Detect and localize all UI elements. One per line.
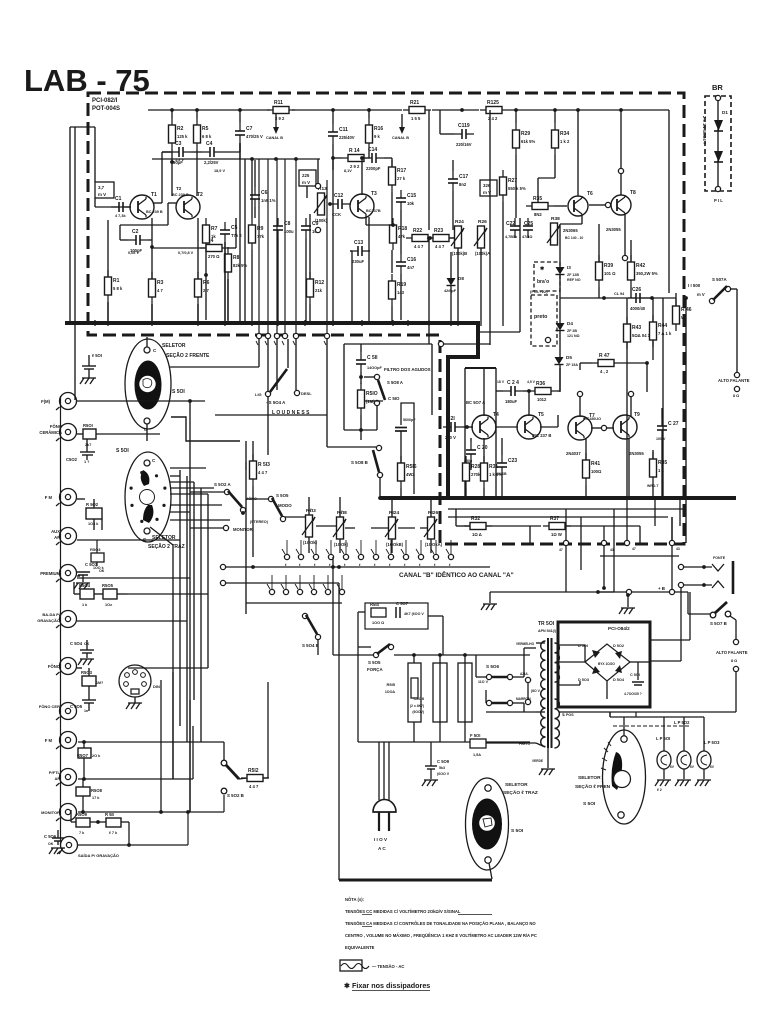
wire selector A bottom stub xyxy=(146,424,148,441)
svg-text:GRAVAÇÃO: GRAVAÇÃO xyxy=(37,618,60,623)
svg-text:4.7OO/35 ?: 4.7OO/35 ? xyxy=(624,692,642,696)
svg-text:(6OO V: (6OO V xyxy=(437,772,450,776)
svg-text:BC 237 B: BC 237 B xyxy=(533,433,551,438)
svg-text:T6: T6 xyxy=(587,191,593,197)
svg-text:400/6B: 400/6B xyxy=(495,472,507,476)
transformer TR501 secondary top xyxy=(555,643,560,653)
connector FONTE bracket xyxy=(732,561,735,594)
svg-text:220/16V: 220/16V xyxy=(456,142,472,147)
wire LP502 xyxy=(683,717,685,751)
svg-text:C3: C3 xyxy=(175,141,182,147)
wire band verticals xyxy=(639,526,641,543)
svg-text:C 5O3: C 5O3 xyxy=(85,562,98,567)
wire R4 right xyxy=(228,247,236,249)
wire R516 bottom xyxy=(400,488,402,497)
svg-text:R 5I3: R 5I3 xyxy=(258,462,270,468)
svg-text:POT-004S: POT-004S xyxy=(92,106,120,112)
svg-text:27 k: 27 k xyxy=(397,176,406,181)
svg-text:DESL: DESL xyxy=(301,391,312,396)
resistor R509 xyxy=(76,818,90,827)
wire R27 down xyxy=(502,202,504,320)
jack FONO CERAMICA xyxy=(60,424,77,441)
wire T1 T2 base coupling xyxy=(153,202,162,204)
wire C7 down xyxy=(239,143,241,160)
svg-text:I3: I3 xyxy=(567,265,571,270)
capacitor C26 xyxy=(635,293,637,303)
wire power bottom rail xyxy=(358,741,530,743)
wire loudness verticals xyxy=(258,339,260,367)
svg-text:C8O8: C8O8 xyxy=(414,696,425,701)
wire C2 loop xyxy=(120,239,128,241)
svg-text:4n7: 4n7 xyxy=(407,265,415,270)
svg-text:CERÂMICA: CERÂMICA xyxy=(39,430,62,435)
svg-text:14OOpF: 14OOpF xyxy=(367,366,382,370)
wire T3 collector up xyxy=(361,158,363,195)
wire C6 vert xyxy=(254,160,256,187)
terminal MONITOR mid xyxy=(223,525,228,530)
svg-text:T5: T5 xyxy=(538,412,544,418)
svg-text:(100k)A: (100k)A xyxy=(475,251,490,256)
wire marrom xyxy=(485,690,487,703)
svg-text:R 5II: R 5II xyxy=(105,812,114,817)
jack FM 2 xyxy=(60,732,77,749)
svg-text:S 5O6: S 5O6 xyxy=(486,664,499,669)
svg-text:R5IO: R5IO xyxy=(366,391,378,397)
ground DIN xyxy=(134,697,136,703)
svg-text:R5O8: R5O8 xyxy=(91,788,103,793)
svg-text:225/40V: 225/40V xyxy=(339,135,355,140)
resistor R507 xyxy=(78,748,91,758)
svg-text:5600pF: 5600pF xyxy=(403,418,416,422)
resistor R125 xyxy=(486,107,502,114)
svg-text:ℓ 2: ℓ 2 xyxy=(657,788,662,792)
wire left drop 3 xyxy=(172,672,174,779)
switch S502B blade xyxy=(226,765,239,779)
svg-text:S 5OI: S 5OI xyxy=(116,448,129,454)
wire T9 emitter xyxy=(628,438,630,497)
resistor R516 xyxy=(398,463,405,481)
wire bundle vertical 2 xyxy=(172,545,174,779)
resistor R39 xyxy=(596,262,603,280)
wire rail stub R29 xyxy=(515,110,517,123)
wire C3 link xyxy=(162,151,171,153)
wire S502B up xyxy=(223,742,225,760)
svg-text:S 5O8 A: S 5O8 A xyxy=(387,380,403,385)
wire R507 leads xyxy=(83,742,85,748)
diode D8 xyxy=(447,278,456,286)
svg-text:C 5O7: C 5O7 xyxy=(396,601,409,606)
svg-text:MONITOR: MONITOR xyxy=(233,527,253,532)
svg-text:C119: C119 xyxy=(458,123,470,129)
terminal BR top xyxy=(715,95,720,100)
jack FONO CER xyxy=(60,703,77,720)
svg-text:(6OOV): (6OOV) xyxy=(412,710,424,714)
transformer TR501 core xyxy=(547,638,549,748)
terminal selector D bottom xyxy=(618,812,624,818)
svg-text:C26: C26 xyxy=(632,287,641,293)
node bus junction xyxy=(439,496,443,500)
wire x663 vert xyxy=(662,298,664,497)
wire selector D top feed xyxy=(623,717,625,736)
capacitor C1 xyxy=(118,202,120,212)
svg-text:(1OOkA): (1OOkA) xyxy=(425,542,443,547)
terminal BR bottom xyxy=(715,186,720,191)
svg-text:T8: T8 xyxy=(630,190,636,196)
svg-text:​1 k: ​1 k xyxy=(658,468,664,473)
svg-text:61k 5%: 61k 5% xyxy=(521,139,535,144)
wire T4 collector up xyxy=(483,368,485,416)
wire stage3 bottoms xyxy=(391,250,393,273)
svg-text:100 V: 100 V xyxy=(656,437,666,441)
capacitor C20 xyxy=(466,449,476,451)
diode D2 in BR xyxy=(714,151,723,162)
svg-text:1Ω Δ: 1Ω Δ xyxy=(472,532,482,537)
potentiometer R26 xyxy=(478,226,485,248)
terminal y567 xyxy=(220,564,225,569)
svg-text:SAÍDA P/ GRAVAÇÃO: SAÍDA P/ GRAVAÇÃO xyxy=(78,853,119,858)
switch S504B xyxy=(302,613,307,618)
wire row2 bus xyxy=(246,602,342,604)
resistor R11 xyxy=(273,107,289,114)
wire long vert x465 xyxy=(464,368,466,497)
switch S504A xyxy=(265,391,270,396)
svg-text:BC480-IO: BC480-IO xyxy=(584,417,601,421)
selector B contact dots xyxy=(162,504,165,507)
svg-text:ZF 12B: ZF 12B xyxy=(567,273,579,277)
resistor R36 xyxy=(535,388,551,395)
svg-text:C4: C4 xyxy=(206,141,213,147)
svg-text:R34: R34 xyxy=(560,131,569,137)
ground right mid xyxy=(619,608,623,614)
capacitor C6 xyxy=(250,194,260,196)
svg-text:T4: T4 xyxy=(493,412,499,418)
svg-text:4,9 V: 4,9 V xyxy=(527,380,536,384)
diode D502 xyxy=(615,651,622,659)
svg-text:PREMIUM: PREMIUM xyxy=(40,571,60,576)
switch S507B xyxy=(710,612,716,618)
wire primary taps xyxy=(536,642,545,644)
resistor R44 xyxy=(650,322,657,340)
svg-text:FÔNO CER: FÔNO CER xyxy=(39,704,60,709)
svg-text:S 5O5: S 5O5 xyxy=(368,660,381,665)
wire ground spur xyxy=(627,595,629,607)
wire fuse xyxy=(486,742,536,744)
svg-text:R11: R11 xyxy=(274,100,283,106)
wire rail stub R16 xyxy=(368,110,370,118)
wire rect box to lamp rail xyxy=(635,712,637,717)
resistor R121 xyxy=(409,107,425,114)
wire input to C1 xyxy=(95,206,126,208)
ground C501 xyxy=(80,378,84,384)
svg-text:47: 47 xyxy=(632,547,636,551)
wire R47 right xyxy=(620,362,647,364)
svg-text:1OOΔ: 1OOΔ xyxy=(385,690,396,694)
svg-text:43: 43 xyxy=(676,547,680,551)
svg-text:R28: R28 xyxy=(471,464,480,470)
wire R12 up xyxy=(309,214,311,279)
dashed box branco xyxy=(534,262,560,291)
pads on dashed bottom border xyxy=(563,540,568,545)
wire caps top feeds xyxy=(413,655,415,663)
svg-text:4 4 7: 4 4 7 xyxy=(435,244,445,249)
svg-text:EQUIVALENTE: EQUIVALENTE xyxy=(345,945,375,950)
svg-text:BC 239 B: BC 239 B xyxy=(146,210,163,214)
svg-text:4 4 7: 4 4 7 xyxy=(249,784,259,789)
wire y583 run xyxy=(226,582,339,584)
resistor R504 xyxy=(80,589,94,599)
svg-text:1 k 2: 1 k 2 xyxy=(560,139,570,144)
svg-text:F(M): F(M) xyxy=(41,399,50,404)
wire C503 stem xyxy=(82,575,84,582)
jack PREMIUM xyxy=(60,565,77,582)
wire emitters down xyxy=(465,488,467,497)
resistor R14 xyxy=(348,155,364,162)
potentiometer R517 volume xyxy=(306,515,313,537)
capacitor C13 xyxy=(357,246,359,256)
wire C510 frame xyxy=(401,403,414,494)
resistor R27 xyxy=(500,177,507,195)
resistor R37 xyxy=(549,523,565,530)
svg-text:AZUL: AZUL xyxy=(520,672,529,676)
wire left bus top corner xyxy=(70,126,95,128)
svg-text:S 5O4 B: S 5O4 B xyxy=(302,643,319,648)
wire long vert x490 xyxy=(489,110,491,345)
svg-text:4W2: 4W2 xyxy=(406,472,415,477)
svg-text:ALTO FALANTE: ALTO FALANTE xyxy=(716,650,748,655)
capacitor C22 xyxy=(510,225,520,227)
resistor R23 xyxy=(433,235,449,242)
box R514 C507 xyxy=(365,603,428,629)
wire pots to contacts xyxy=(308,537,310,553)
terminal speaker A+ xyxy=(734,372,739,377)
capacitor C23 xyxy=(497,462,507,464)
wire T2 base xyxy=(168,202,177,204)
svg-text:2k7: 2k7 xyxy=(85,443,91,447)
selector S501 sec1 traz rotor xyxy=(472,799,502,850)
resistor R22 xyxy=(412,235,428,242)
wire T8 collector up xyxy=(620,110,622,168)
svg-text:2O k: 2O k xyxy=(92,754,101,758)
terminal T7 base xyxy=(601,425,606,430)
resistor R18 xyxy=(390,225,397,243)
selector D ticks xyxy=(604,748,608,752)
wire R44 vert xyxy=(652,298,654,322)
wire y159 distribution xyxy=(152,158,320,160)
svg-text:4 7,3k: 4 7,3k xyxy=(115,214,126,218)
wire band drop 530 xyxy=(529,526,531,543)
svg-text:R38: R38 xyxy=(551,216,560,222)
svg-text:2N3055: 2N3055 xyxy=(606,227,621,232)
wire contact feeds xyxy=(286,540,288,554)
svg-text:C 20: C 20 xyxy=(477,445,488,451)
switch S507A xyxy=(709,298,714,303)
wire y556 run xyxy=(600,555,679,557)
svg-text:ZF 2B: ZF 2B xyxy=(567,329,577,333)
svg-text:A C: A C xyxy=(378,846,386,851)
capacitor C21 xyxy=(450,422,452,432)
wire pot tops xyxy=(308,497,310,515)
diode D501 xyxy=(592,650,600,658)
svg-text:R5O3: R5O3 xyxy=(90,547,101,552)
wire R5 down xyxy=(196,150,198,196)
svg-text:L P 5O3: L P 5O3 xyxy=(704,740,720,745)
capacitor C27 xyxy=(657,425,667,427)
wire R23 to R24 xyxy=(449,237,454,239)
svg-text:R1: R1 xyxy=(113,278,120,284)
svg-text:C 5O4: C 5O4 xyxy=(70,641,83,646)
svg-text:S 5O5: S 5O5 xyxy=(276,493,289,498)
resistor R5 xyxy=(194,125,201,143)
resistor R6 xyxy=(195,279,202,297)
transistor T6 xyxy=(568,196,588,216)
annotation 326 mV box xyxy=(480,180,497,196)
diode D5 xyxy=(555,357,564,365)
terminal pad out1 xyxy=(678,564,683,569)
selector S501 front hub xyxy=(139,376,155,392)
wire left double bus b xyxy=(74,127,76,400)
svg-text:121 NΩ: 121 NΩ xyxy=(567,334,580,338)
annotation CANAL B arrow right xyxy=(401,114,403,130)
wire rail stub C7 xyxy=(239,110,241,123)
svg-text:R26: R26 xyxy=(478,219,487,225)
wire y592 run xyxy=(600,591,688,593)
svg-text:R43: R43 xyxy=(632,325,641,331)
wire C4 right xyxy=(222,151,240,153)
wire selector C bottom xyxy=(489,863,492,879)
transformer TR501 secondary bottom xyxy=(555,699,560,709)
contact row 2 xyxy=(269,589,274,594)
wire R513 xyxy=(252,441,254,461)
svg-text:47: 47 xyxy=(559,548,563,552)
wire C26 right to R46 xyxy=(648,297,676,299)
wire R16 down xyxy=(368,150,370,158)
wire C9 down xyxy=(305,238,307,322)
wire bundle vertical 5 xyxy=(193,482,195,700)
svg-text:225: 225 xyxy=(302,173,310,178)
wire pad down xyxy=(671,546,673,589)
svg-text:R37: R37 xyxy=(550,516,559,522)
svg-text:1,5A: 1,5A xyxy=(473,753,481,757)
svg-text:S 5O2 A: S 5O2 A xyxy=(214,482,232,487)
wire R503 C505 xyxy=(77,667,82,669)
svg-text:RI26: RI26 xyxy=(428,510,438,516)
svg-text:8,1V: 8,1V xyxy=(344,169,352,173)
svg-text:S 507A: S 507A xyxy=(712,277,727,282)
ground LP503 xyxy=(695,780,699,786)
wire R6 up xyxy=(197,218,199,279)
wire R35 to T6 xyxy=(554,205,567,207)
switch S505 FORCA xyxy=(373,652,378,657)
svg-text:MARROM: MARROM xyxy=(516,697,531,701)
svg-text:MONITOR: MONITOR xyxy=(41,810,60,815)
svg-text:CANAL B: CANAL B xyxy=(392,136,409,140)
PCB outline PCI-082 dashed border xyxy=(88,93,684,544)
wire top supply rail xyxy=(148,109,270,111)
wire T8 collector xyxy=(620,168,622,195)
wire vert drops from amp to bus xyxy=(94,320,96,326)
terminal pad out2 xyxy=(678,582,683,587)
svg-text:R18: R18 xyxy=(398,226,407,232)
wire band y509 xyxy=(448,508,686,510)
svg-text:- S 5O4 A: - S 5O4 A xyxy=(266,400,286,405)
wire bundle vertical 8 xyxy=(245,441,247,614)
wire C119 stub xyxy=(440,133,454,135)
svg-text:R8: R8 xyxy=(233,255,240,261)
svg-text:ALTO FALANTE: ALTO FALANTE xyxy=(718,378,750,383)
svg-text:C17: C17 xyxy=(459,174,468,180)
diode D4 xyxy=(556,323,565,331)
wire jack FM line xyxy=(77,498,85,500)
svg-text:R42: R42 xyxy=(636,263,645,269)
wire filtro box xyxy=(344,343,432,345)
svg-text:SEÇÃO ℓ FREN: SEÇÃO ℓ FREN xyxy=(575,783,611,790)
resistor R17 xyxy=(389,167,396,185)
wire MONITOR run xyxy=(78,811,224,813)
svg-text:R31: R31 xyxy=(489,464,498,470)
svg-text:2 x 1N 4OO4 ?: 2 x 1N 4OO4 ? xyxy=(702,116,707,145)
pads on border row xyxy=(256,333,261,338)
ground C506 xyxy=(49,848,53,854)
svg-text:S 5OI: S 5OI xyxy=(172,389,185,395)
resistor R31 xyxy=(481,463,488,481)
resistor R16 xyxy=(366,125,373,143)
wire R39 vert xyxy=(598,224,600,262)
svg-text:SEÇÃO ℓ TRAZ: SEÇÃO ℓ TRAZ xyxy=(503,789,538,796)
svg-text:FILTRO DOS AGUDOS: FILTRO DOS AGUDOS xyxy=(384,367,431,372)
resistor R9 xyxy=(249,225,256,243)
wire loudness bottom xyxy=(215,414,327,416)
wire bridge io xyxy=(558,644,585,646)
ground LP502 xyxy=(675,780,679,786)
svg-text:D4: D4 xyxy=(567,321,573,326)
filter cap bank 2 xyxy=(433,663,447,722)
wire R508 leads xyxy=(82,779,84,787)
svg-text:0,08 V: 0,08 V xyxy=(128,251,139,255)
svg-text:BC237B: BC237B xyxy=(366,209,381,213)
potentiometer R518 xyxy=(337,517,344,539)
wire T5-T7 via xyxy=(540,426,558,428)
svg-text:3,7: 3,7 xyxy=(98,185,105,190)
wire lamp rail 2 xyxy=(613,725,689,727)
wire R24 down xyxy=(457,248,459,320)
svg-text:AUX: AUX xyxy=(51,529,60,534)
svg-text:R5O5: R5O5 xyxy=(102,583,114,588)
wire C1 to T1 base xyxy=(126,206,131,208)
svg-text:R16: R16 xyxy=(374,126,383,132)
svg-text:0,7/0,8 V: 0,7/0,8 V xyxy=(178,251,194,255)
svg-text:R24: R24 xyxy=(455,219,464,225)
svg-text:R5O9: R5O9 xyxy=(76,812,88,817)
svg-text:R36: R36 xyxy=(536,381,545,387)
resistor R19 xyxy=(389,281,396,299)
resistor R34 xyxy=(552,130,559,148)
fuse F501 xyxy=(470,739,486,748)
wire T5 collector up xyxy=(528,391,530,416)
annotation CANAL B arrow left xyxy=(275,114,277,130)
wire R47 left xyxy=(580,362,592,364)
bus thick output ground xyxy=(380,496,736,500)
ground LP501 xyxy=(655,780,659,786)
svg-text:preto: preto xyxy=(534,314,548,320)
wire left drop 1 xyxy=(189,700,191,812)
svg-text:1 5 5: 1 5 5 xyxy=(411,116,421,121)
svg-text:(1M): (1M) xyxy=(366,399,375,404)
wire R509 R511 xyxy=(70,810,72,822)
svg-text:2N4037: 2N4037 xyxy=(566,451,581,456)
svg-text:P I L: P I L xyxy=(714,198,723,203)
capacitor C7 xyxy=(235,130,245,132)
ground C509 xyxy=(422,780,426,786)
